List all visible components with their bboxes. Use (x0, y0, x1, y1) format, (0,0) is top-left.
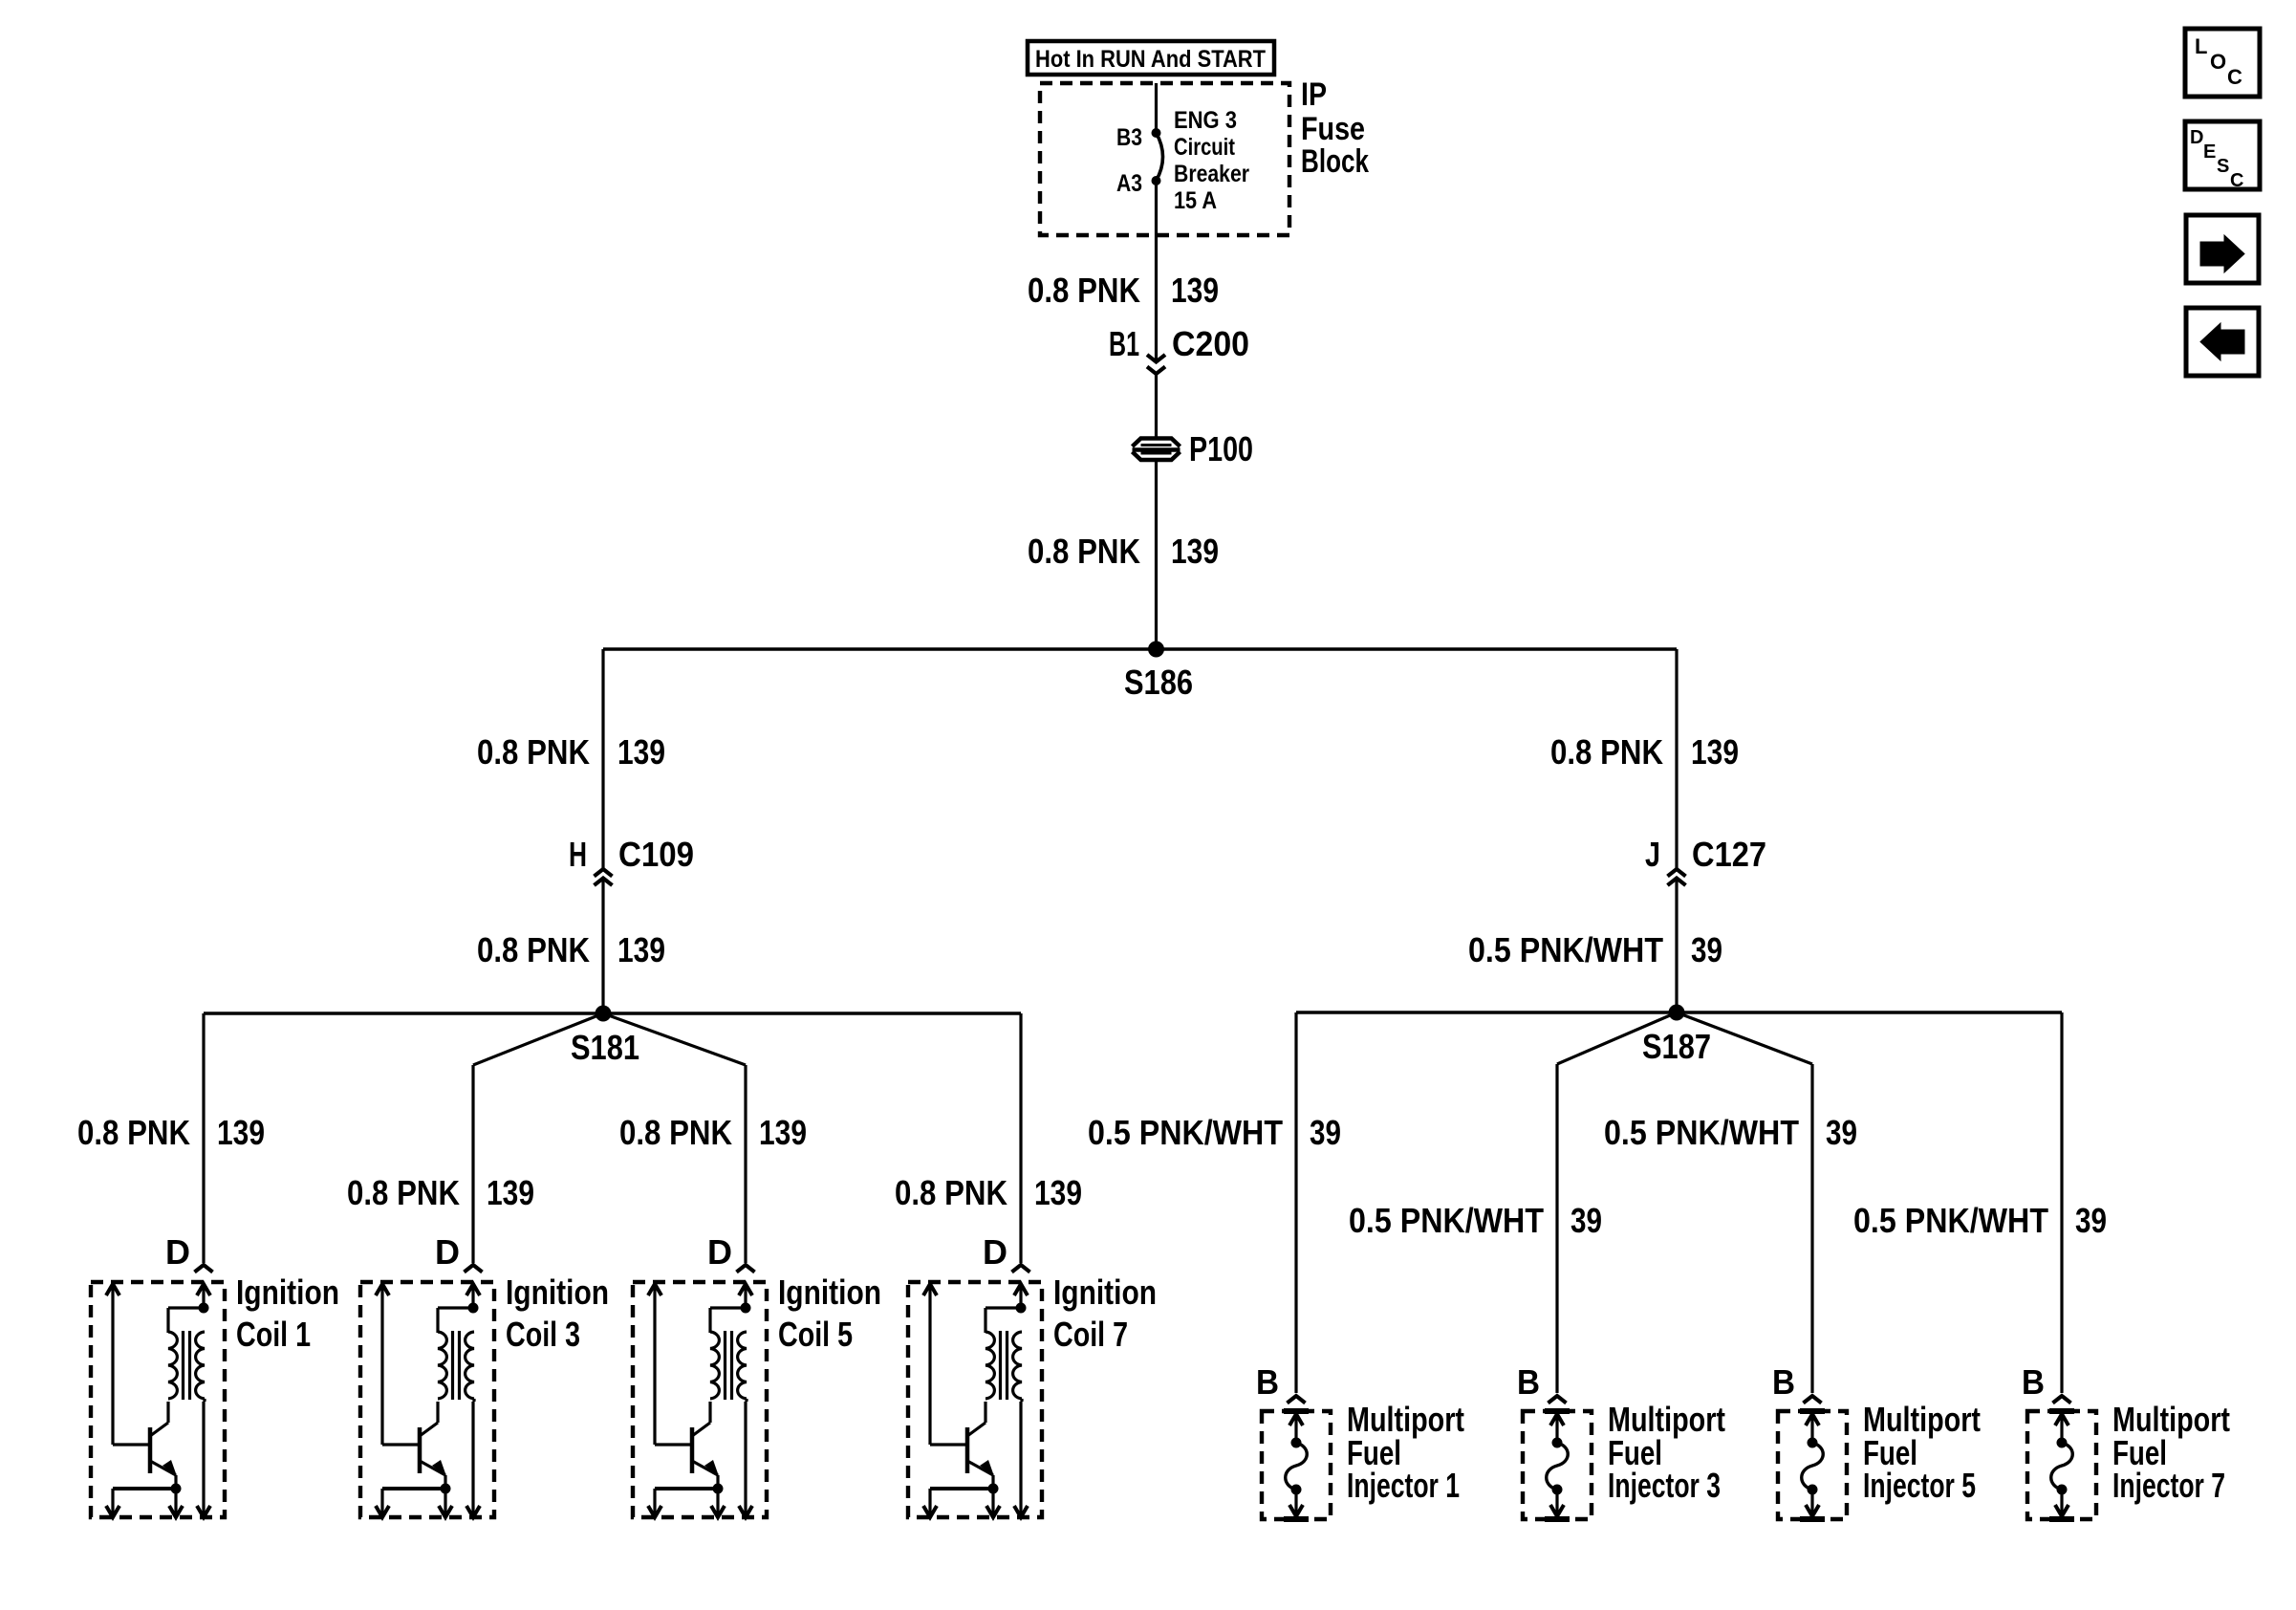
svg-text:0.8 PNK: 0.8 PNK (1028, 532, 1140, 571)
svg-text:C: C (2227, 65, 2242, 89)
svg-text:ENG 3: ENG 3 (1174, 107, 1237, 134)
svg-text:139: 139 (617, 930, 665, 969)
svg-text:B3: B3 (1116, 124, 1142, 151)
svg-text:0.8 PNK: 0.8 PNK (477, 732, 590, 772)
fuel injector 7 dashed box (2027, 1411, 2096, 1519)
circuit breaker element (arc) (1157, 133, 1163, 181)
svg-text:D: D (435, 1232, 460, 1272)
svg-text:H: H (569, 835, 587, 874)
fuel injector 1 dashed box (1262, 1411, 1331, 1519)
terminal D (ignition coil 3) (435, 1232, 483, 1273)
wire: S181 diagonal to coil 5 branch (603, 1013, 746, 1065)
wire: C109 down to splice S181 (601, 879, 604, 1014)
svg-text:Injector 7: Injector 7 (2112, 1466, 2225, 1505)
svg-text:0.8 PNK: 0.8 PNK (347, 1173, 460, 1212)
svg-text:0.5 PNK/WHT: 0.5 PNK/WHT (1088, 1113, 1283, 1152)
svg-text:B: B (1256, 1362, 1279, 1402)
svg-text:139: 139 (1171, 271, 1219, 310)
wire: S186 rail down-left leg to C109 (601, 649, 604, 868)
label Ignition Coil 1 (236, 1273, 339, 1354)
svg-text:0.8 PNK: 0.8 PNK (477, 930, 590, 969)
label Ignition Coil 5 (778, 1273, 881, 1354)
svg-text:Ignition: Ignition (506, 1273, 609, 1312)
svg-text:139: 139 (1034, 1173, 1082, 1212)
terminal B (fuel injector 7) (2022, 1362, 2071, 1403)
svg-text:Ignition: Ignition (1053, 1273, 1157, 1312)
svg-text:S: S (2217, 156, 2229, 177)
label Multiport Fuel Injector 1 (1347, 1400, 1464, 1505)
svg-text:139: 139 (617, 732, 665, 772)
svg-text:Ignition: Ignition (778, 1273, 881, 1312)
svg-text:39: 39 (1826, 1113, 1857, 1152)
nav icon box DESC (2185, 121, 2260, 191)
svg-text:IP: IP (1301, 76, 1327, 113)
wire label 0.8 PNK 139 (trunk upper) (1028, 271, 1219, 310)
wire label 0.8 PNK 139 (coil 1) (77, 1113, 265, 1152)
svg-text:0.8 PNK: 0.8 PNK (1028, 271, 1140, 310)
svg-text:39: 39 (1691, 930, 1722, 969)
wire: S186 rail down-right leg to C127 (1675, 649, 1678, 868)
svg-text:S187: S187 (1642, 1027, 1711, 1066)
ignition coil 1 dashed box (91, 1282, 225, 1517)
svg-text:Fuse: Fuse (1301, 111, 1365, 147)
svg-text:0.5 PNK/WHT: 0.5 PNK/WHT (1853, 1201, 2048, 1240)
svg-text:J: J (1645, 835, 1660, 874)
wire label 0.8 PNK 139 (right branch upper) (1550, 732, 1739, 772)
svg-text:C: C (2230, 170, 2243, 191)
pin B3 (1116, 124, 1161, 151)
wire label 0.8 PNK 139 (coil 3) (347, 1173, 534, 1212)
wire: fuse block top edge to pin B3 (1155, 83, 1158, 133)
wire: pin A3 down to connector C200 (1155, 181, 1158, 361)
svg-text:139: 139 (217, 1113, 265, 1152)
wire label 0.5 PNK/WHT 39 (injector 7) (1853, 1201, 2107, 1240)
svg-text:0.5 PNK/WHT: 0.5 PNK/WHT (1349, 1201, 1544, 1240)
wire: P100 down to splice S186 (1155, 460, 1158, 649)
bus wire S186 horizontal rail (603, 647, 1677, 650)
wire label 0.8 PNK 139 (coil 7) (895, 1173, 1082, 1212)
svg-text:D: D (165, 1232, 190, 1272)
ignition coil 3 dashed box (360, 1282, 494, 1517)
svg-text:P100: P100 (1189, 429, 1253, 468)
svg-text:Injector 1: Injector 1 (1347, 1466, 1460, 1505)
pin A3 (1116, 170, 1161, 197)
injector 7 internal solenoid (2049, 1411, 2074, 1519)
label Multiport Fuel Injector 5 (1863, 1400, 1981, 1505)
fuel injector 5 dashed box (1778, 1411, 1847, 1519)
svg-text:0.5 PNK/WHT: 0.5 PNK/WHT (1468, 930, 1663, 969)
svg-text:L: L (2195, 34, 2207, 58)
label Multiport Fuel Injector 3 (1608, 1400, 1725, 1505)
splice S187 junction dot (1669, 1005, 1685, 1021)
svg-text:Coil 7: Coil 7 (1053, 1315, 1128, 1354)
svg-text:E: E (2203, 141, 2216, 163)
wire label 0.8 PNK 139 (trunk lower) (1028, 532, 1219, 571)
wire: C127 down to splice S187 (1675, 879, 1678, 1013)
svg-text:0.5 PNK/WHT: 0.5 PNK/WHT (1604, 1113, 1799, 1152)
label Multiport Fuel Injector 7 (2112, 1400, 2230, 1505)
svg-text:O: O (2210, 50, 2226, 74)
label Ignition Coil 3 (506, 1273, 609, 1354)
terminal D (ignition coil 1) (165, 1232, 213, 1273)
grommet P100 (1133, 429, 1254, 468)
injector 1 internal solenoid (1284, 1411, 1309, 1519)
label IP Fuse Block (1301, 76, 1369, 180)
ignition coil 5 dashed box (633, 1282, 767, 1517)
nav icon box LOC (2185, 29, 2260, 97)
svg-text:39: 39 (1310, 1113, 1341, 1152)
wire: branch down to injector 5 (1810, 1064, 1813, 1393)
wire: S181 diagonal to coil 3 branch (473, 1013, 603, 1065)
wire: branch down to injector 3 (1555, 1064, 1558, 1393)
bus wire S187 horizontal rail (1296, 1011, 2062, 1013)
svg-text:D: D (707, 1232, 732, 1272)
terminal B (fuel injector 3) (1517, 1362, 1567, 1403)
svg-text:0.8 PNK: 0.8 PNK (895, 1173, 1007, 1212)
svg-text:Coil 1: Coil 1 (236, 1315, 311, 1354)
svg-text:S181: S181 (571, 1028, 639, 1067)
svg-text:B: B (1772, 1362, 1795, 1402)
wire: branch down to ignition coil 3 (471, 1065, 474, 1263)
svg-text:139: 139 (487, 1173, 534, 1212)
svg-text:Injector 5: Injector 5 (1863, 1466, 1976, 1505)
svg-text:D: D (2190, 127, 2203, 148)
svg-text:D: D (983, 1232, 1007, 1272)
coil 1 internal circuit (106, 1284, 210, 1517)
svg-text:B: B (1517, 1362, 1540, 1402)
svg-text:Hot In RUN And START: Hot In RUN And START (1035, 46, 1266, 73)
wire: C200 down to grommet P100 (1155, 374, 1158, 439)
svg-text:A3: A3 (1116, 170, 1142, 197)
svg-text:0.8 PNK: 0.8 PNK (1550, 732, 1663, 772)
svg-text:B: B (2022, 1362, 2045, 1402)
nav icon right arrow (2186, 215, 2259, 283)
svg-text:Ignition: Ignition (236, 1273, 339, 1312)
coil 3 internal circuit (376, 1284, 480, 1517)
coil 5 internal circuit (648, 1284, 752, 1517)
svg-text:C200: C200 (1172, 324, 1249, 363)
svg-text:Coil 3: Coil 3 (506, 1315, 580, 1354)
wire label 0.5 PNK/WHT 39 (injector 5) (1604, 1113, 1857, 1152)
wire label 0.5 PNK/WHT 39 (injector 3) (1349, 1201, 1602, 1240)
svg-text:15 A: 15 A (1174, 187, 1217, 214)
svg-text:0.8 PNK: 0.8 PNK (77, 1113, 190, 1152)
svg-text:139: 139 (759, 1113, 807, 1152)
injector 5 internal solenoid (1800, 1411, 1825, 1519)
terminal B (fuel injector 5) (1772, 1362, 1822, 1403)
terminal D (ignition coil 5) (707, 1232, 755, 1273)
wire: branch down to ignition coil 7 (1019, 1013, 1022, 1263)
svg-text:39: 39 (2075, 1201, 2107, 1240)
label ENG 3 Circuit Breaker 15 A (1174, 107, 1249, 214)
wire label 0.5 PNK/WHT 39 (right branch lower) (1468, 930, 1722, 969)
label Ignition Coil 7 (1053, 1273, 1157, 1354)
svg-text:B1: B1 (1109, 324, 1139, 363)
svg-text:Injector 3: Injector 3 (1608, 1466, 1721, 1505)
wire: branch down to ignition coil 5 (744, 1065, 747, 1263)
svg-text:139: 139 (1171, 532, 1219, 571)
svg-text:Circuit: Circuit (1174, 134, 1236, 161)
connector H C109 (569, 835, 694, 885)
svg-text:0.8 PNK: 0.8 PNK (619, 1113, 732, 1152)
svg-text:C109: C109 (618, 835, 694, 874)
wire label 0.8 PNK 139 (left branch lower) (477, 930, 665, 969)
bus wire S181 horizontal rail (204, 1012, 1021, 1014)
header box: Hot In RUN And START (1028, 41, 1274, 75)
wire label 0.5 PNK/WHT 39 (injector 1) (1088, 1113, 1341, 1152)
wire label 0.8 PNK 139 (left branch upper) (477, 732, 665, 772)
coil 7 internal circuit (923, 1284, 1028, 1517)
svg-text:Coil 5: Coil 5 (778, 1315, 853, 1354)
svg-text:C127: C127 (1692, 835, 1766, 874)
ignition coil 7 dashed box (908, 1282, 1042, 1517)
wire: S187 diagonal to injector 5 branch (1677, 1012, 1812, 1064)
splice S186 junction dot (1148, 642, 1164, 658)
svg-text:S186: S186 (1124, 663, 1193, 702)
wire: S187 diagonal to injector 3 branch (1557, 1012, 1677, 1064)
IP Fuse Block dashed box (1040, 83, 1289, 235)
injector 3 internal solenoid (1545, 1411, 1570, 1519)
svg-text:39: 39 (1570, 1201, 1602, 1240)
connector B1 C200 (1109, 324, 1249, 374)
wire label 0.8 PNK 139 (coil 5) (619, 1113, 807, 1152)
wire: branch down to injector 7 (2060, 1012, 2063, 1393)
nav icon left arrow (2186, 308, 2259, 376)
terminal B (fuel injector 1) (1256, 1362, 1306, 1403)
svg-text:139: 139 (1691, 732, 1739, 772)
svg-text:Breaker: Breaker (1174, 161, 1249, 187)
fuel injector 3 dashed box (1523, 1411, 1592, 1519)
wire: branch down to ignition coil 1 (202, 1013, 205, 1263)
svg-text:Block: Block (1301, 143, 1369, 180)
connector J C127 (1645, 835, 1766, 885)
wire: branch down to injector 1 (1294, 1012, 1297, 1393)
splice S181 junction dot (596, 1006, 612, 1022)
terminal D (ignition coil 7) (983, 1232, 1030, 1273)
